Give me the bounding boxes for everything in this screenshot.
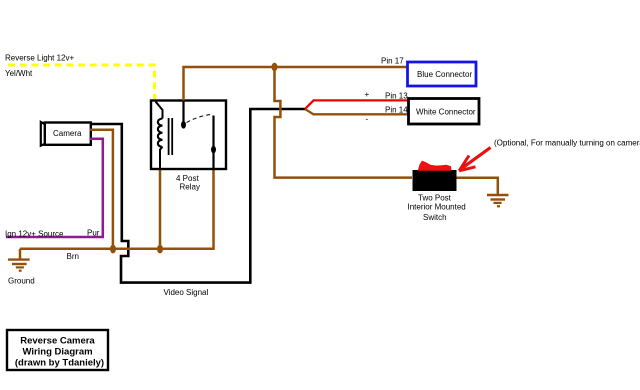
- junction node camera-ground: [110, 245, 116, 254]
- wire yellow Yel/Wht reverse-light feed: [8, 65, 155, 101]
- svg-text:Pur: Pur: [87, 229, 100, 238]
- svg-text:Pin 14: Pin 14: [385, 106, 408, 115]
- wire red Pin 13 video+: [305, 100, 409, 109]
- connector J1 Blue Connector: [408, 62, 477, 86]
- wire purple camera ignition feed: [6, 139, 103, 237]
- svg-text:Ign 12v+ Source: Ign 12v+ Source: [5, 230, 64, 239]
- svg-text:Brn: Brn: [67, 252, 79, 261]
- connector J2 White Connector: [409, 99, 480, 125]
- svg-text:White Connector: White Connector: [416, 108, 476, 117]
- relay switch blade dashed: [187, 114, 214, 122]
- svg-text:Reverse Light 12v+: Reverse Light 12v+: [5, 54, 74, 63]
- wire brown relay output to blue connector Pin 17: [184, 67, 408, 101]
- svg-text:+: +: [365, 90, 370, 99]
- ground symbol left: [8, 260, 30, 271]
- relay U1 4 Post Relay box: [151, 101, 226, 170]
- switch S1 red rocker: [418, 161, 452, 171]
- wire brown switch to right ground: [457, 178, 498, 194]
- ground symbol right: [487, 195, 509, 206]
- svg-text:Wiring Diagram: Wiring Diagram: [22, 347, 92, 358]
- svg-text:Reverse Camera: Reverse Camera: [20, 336, 95, 347]
- svg-text:-: -: [366, 115, 369, 124]
- relay coil armature lead: [156, 102, 163, 119]
- relay NO pin lead: [212, 116, 214, 169]
- junction node relay-ground: [157, 245, 163, 254]
- svg-text:Blue Connector: Blue Connector: [417, 70, 472, 79]
- junction node pin17-switch: [272, 63, 278, 71]
- svg-text:Relay: Relay: [180, 183, 200, 192]
- wire brown Pin 14 video-: [305, 109, 409, 114]
- svg-text:Camera: Camera: [53, 129, 82, 138]
- camera CAM1 body: [45, 123, 91, 145]
- svg-text:(drawn by Tdaniely): (drawn by Tdaniely): [15, 358, 104, 369]
- svg-text:Ground: Ground: [8, 277, 35, 286]
- svg-text:Pin 13: Pin 13: [385, 92, 408, 101]
- wire brown ground bus: [20, 168, 214, 249]
- wire brown switch branch with hop: [275, 67, 413, 178]
- wire black video signal from camera to white connector: [90, 109, 305, 283]
- wire brown ground stem left: [19, 249, 22, 259]
- title box Reverse Camera Wiring Diagram: [7, 330, 108, 370]
- relay common pin lead: [182, 101, 184, 122]
- switch S1 Two Post Interior Mounted Switch body: [413, 170, 457, 191]
- svg-text:Video Signal: Video Signal: [164, 288, 209, 297]
- svg-text:Two Post: Two Post: [418, 194, 452, 203]
- relay coil bottom lead: [160, 147, 163, 168]
- wire brown camera ground drop: [90, 130, 113, 249]
- relay pin NO contact: [211, 146, 216, 154]
- relay pin common contact: [181, 121, 186, 129]
- svg-text:Pin 17: Pin 17: [381, 57, 404, 66]
- annotation red arrow to switch: [463, 148, 491, 168]
- svg-text:Switch: Switch: [423, 213, 447, 222]
- wire brown relay coil leg to ground bus: [159, 168, 162, 249]
- svg-text:Yel/Wht: Yel/Wht: [5, 69, 33, 78]
- svg-text:(Optional, For manually turnin: (Optional, For manually turning on camer…: [494, 139, 640, 148]
- camera CAM1 lens: [41, 122, 46, 146]
- relay coil L1: [158, 119, 163, 147]
- svg-text:Interior Mounted: Interior Mounted: [408, 203, 466, 212]
- relay core bars: [169, 118, 173, 155]
